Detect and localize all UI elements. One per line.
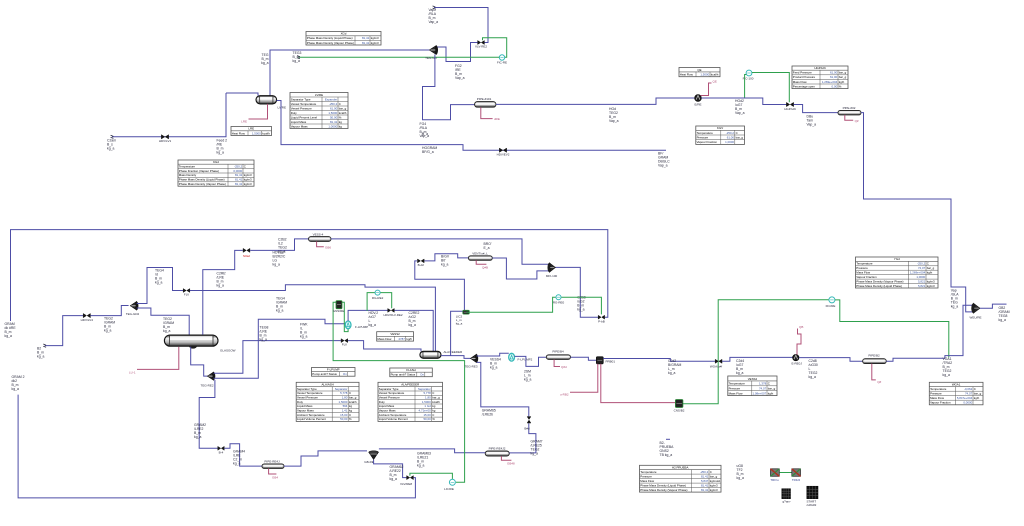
wire VLV-RE2 to compressor TEG-GD xyxy=(437,43,477,62)
svg-text:TEGB_mkg_a: TEGB_mkg_a xyxy=(261,53,269,65)
wire N#a2 branch to GLASGOW top xyxy=(203,250,243,334)
wire HDV/LV4 to tee TEG-GD2 xyxy=(90,306,128,316)
pump F-LPUMP2 xyxy=(509,353,515,361)
svg-text:kg/h: kg/h xyxy=(768,391,774,395)
energy stream QB xyxy=(797,329,801,355)
node C2am xyxy=(111,135,114,138)
svg-text:kg/m3: kg/m3 xyxy=(244,182,252,186)
pump F-LPUMP xyxy=(345,321,351,329)
svg-text:C: C xyxy=(927,262,929,266)
wire PIPE-RE4J2 to vertical valve xyxy=(509,452,536,454)
table VESS2 b xyxy=(728,376,777,396)
svg-text:kg: kg xyxy=(339,120,342,124)
svg-text:kg/h: kg/h xyxy=(407,337,413,341)
wire E-RE0J to pipe PIPE/B2 xyxy=(799,358,863,362)
block GNS/RE xyxy=(333,302,465,482)
svg-text:Q#: Q# xyxy=(855,119,859,123)
green junction comp xyxy=(463,310,470,314)
svg-text:WGA1: WGA1 xyxy=(952,383,961,387)
svg-text:81,41: 81,41 xyxy=(330,120,338,124)
pipe PIPE-RE4J2 xyxy=(485,451,509,456)
svg-text:PIPE-#02: PIPE-#02 xyxy=(843,106,856,110)
svg-text:81,41: 81,41 xyxy=(701,474,709,478)
table LRE heat flow xyxy=(231,127,272,136)
svg-text:Duty: Duty xyxy=(291,111,297,115)
table ALA/ASH xyxy=(296,382,359,421)
svg-text:F-LPUMP: F-LPUMP xyxy=(327,368,340,372)
svg-text:FIC/RE: FIC/RE xyxy=(826,304,836,308)
energy stream dRE xyxy=(481,107,493,118)
wire feed B2 to valve HDV/LV4 xyxy=(45,316,83,346)
wire VESS-4 to mixer MIX-100 top inlet xyxy=(331,239,550,264)
svg-text:Pressure: Pressure xyxy=(640,474,652,478)
svg-text:Temperature: Temperature xyxy=(856,262,873,266)
svg-text:XGd: XGd xyxy=(341,32,347,36)
svg-text:1,08e+007: 1,08e+007 xyxy=(752,391,766,395)
svg-text:H2 PRUEBA: H2 PRUEBA xyxy=(672,466,688,470)
svg-text:kg/m3: kg/m3 xyxy=(244,178,252,182)
svg-text:50,00: 50,00 xyxy=(423,417,431,421)
svg-text:Vapour Fraction: Vapour Fraction xyxy=(930,401,951,405)
pipe PIPE-#02 xyxy=(838,110,861,115)
valve FLV xyxy=(183,289,190,293)
wire vertical valve branch to funnel junction xyxy=(529,423,536,453)
svg-text:FLASH: FLASH xyxy=(406,368,415,372)
svg-text:1,41: 1,41 xyxy=(342,409,348,413)
energy stream Q#B xyxy=(476,260,486,264)
svg-text:HDV/LV4: HDV/LV4 xyxy=(81,318,94,322)
svg-text:Vapour Mass: Vapour Mass xyxy=(291,124,308,128)
svg-text:Phase Mass Density (Vapour Pha: Phase Mass Density (Vapour Phase) xyxy=(307,41,354,45)
mixer MIX-100 xyxy=(548,263,556,272)
svg-text:QE: QE xyxy=(697,68,701,72)
svg-text:Mass Flow: Mass Flow xyxy=(930,396,945,400)
tee TEG-GD2 xyxy=(130,302,138,311)
svg-text:Phase Mass Density (Vapour Pha: Phase Mass Density (Vapour Phase) xyxy=(179,182,226,186)
svg-text:GB-RE: GB-RE xyxy=(364,460,374,464)
svg-text:YGd: YGd xyxy=(894,257,900,261)
svg-text:kcal/h: kcal/h xyxy=(262,131,270,135)
svg-text:kg/m3: kg/m3 xyxy=(927,284,935,288)
wire valve B-d2 branch down to TEG-RE3 line xyxy=(415,261,465,356)
svg-text:Liquid Mass: Liquid Mass xyxy=(291,120,307,124)
svg-text:Pressure: Pressure xyxy=(697,136,709,140)
svg-text:TEG-GD2: TEG-GD2 xyxy=(126,312,140,316)
controller LIC/RE xyxy=(449,479,455,485)
wire funnel bottom to valve VLV/RE8 xyxy=(374,460,407,478)
wire PIPE/B4 to block PRB01 xyxy=(571,357,597,360)
svg-text:%: % xyxy=(432,417,435,421)
svg-text:kg/h: kg/h xyxy=(927,271,933,275)
svg-text:1,0000: 1,0000 xyxy=(916,275,925,279)
wire TEG-GD2 bottom out to vessel GLASGOW xyxy=(137,308,190,335)
svg-text:Phase Mass Density (Liquid Pha: Phase Mass Density (Liquid Phase) xyxy=(307,36,353,40)
svg-text:kg: kg xyxy=(432,409,435,413)
valve B-d2 xyxy=(418,259,425,263)
node Vap2/RLA xyxy=(433,6,436,9)
table XGd phase densities xyxy=(306,32,381,46)
wire TEG-RE2 to valve FLV2 to ALA/FEEDER xyxy=(214,341,341,374)
wire green TEG3 line xyxy=(299,56,500,58)
wire PRB01 to valve WGA/u#f xyxy=(603,359,715,362)
svg-text:GB6: GB6 xyxy=(325,246,331,250)
svg-text:GNS/RE: GNS/RE xyxy=(333,309,345,313)
energy stream LU-1 xyxy=(137,347,179,370)
table YGd xyxy=(856,257,939,288)
energy stream Q# b xyxy=(872,364,876,380)
svg-text:Heat Flow: Heat Flow xyxy=(680,73,694,77)
wire HGP to PIPE-#02 xyxy=(794,105,838,113)
svg-text:Pressure: Pressure xyxy=(930,392,942,396)
svg-text:TEG-RE2: TEG-RE2 xyxy=(200,383,213,387)
svg-text:u-RB2: u-RB2 xyxy=(560,393,569,397)
svg-text:Phase Fraction (Vapour Phase): Phase Fraction (Vapour Phase) xyxy=(179,169,219,173)
svg-text:C: C xyxy=(339,102,341,106)
svg-text:kg/m3: kg/m3 xyxy=(927,279,935,283)
wire TEG-RE3 to pump F-LPUMP2 xyxy=(477,353,509,356)
wire pump to valve HGP xyxy=(701,98,786,105)
svg-text:Mass Flow: Mass Flow xyxy=(793,80,808,84)
svg-text:1,378: 1,378 xyxy=(759,382,767,386)
svg-text:1,5000: 1,5000 xyxy=(252,131,261,135)
svg-text:TRF/d: TRF/d xyxy=(792,478,801,482)
svg-text:kg: kg xyxy=(339,124,342,128)
svg-text:%: % xyxy=(339,115,342,119)
svg-text:Phase Mass Density (Liquid Pha: Phase Mass Density (Liquid Phase) xyxy=(179,178,225,182)
svg-text:kg: kg xyxy=(349,409,352,413)
svg-text:WEU/RE: WEU/RE xyxy=(970,315,982,319)
svg-text:-0,062: -0,062 xyxy=(964,387,973,391)
pump E/RE xyxy=(695,95,702,102)
svg-text:B-4: B-4 xyxy=(219,450,224,454)
wire FIC-100 tap xyxy=(745,75,747,98)
svg-text:Pump amb? Status: Pump amb? Status xyxy=(312,372,337,376)
block CNS/B2 xyxy=(675,400,683,408)
svg-text:QB: QB xyxy=(799,325,803,329)
svg-text:PIPE-#101: PIPE-#101 xyxy=(477,97,492,101)
wire LIC/RE to valve VLV/RE8 signal xyxy=(410,473,453,479)
svg-text:Phase Mass Density (Vapour Pha: Phase Mass Density (Vapour Phase) xyxy=(640,488,687,492)
svg-text:bar_g: bar_g xyxy=(839,75,847,79)
svg-text:61,00: 61,00 xyxy=(830,71,838,75)
svg-text:bar_g: bar_g xyxy=(339,106,347,110)
compressor TEG-GD xyxy=(429,46,438,55)
svg-text:uG8TF2B_mkg_a: uG8TF2B_mkg_a xyxy=(737,464,744,480)
wire FIC/RE to junction on product line xyxy=(835,300,949,358)
table KGV xyxy=(696,126,745,144)
svg-text:1,5000: 1,5000 xyxy=(422,400,431,404)
node TEG3 xyxy=(297,56,300,59)
wire PIPE-RE4J to relief funnel xyxy=(284,451,367,466)
svg-text:1,0000: 1,0000 xyxy=(328,124,337,128)
energy stream GB4 xyxy=(269,468,277,474)
wire B-4 to pipe PIPE-RE4J xyxy=(224,444,262,466)
controller RG-RE0 xyxy=(466,297,556,312)
svg-text:Pump amb? Status: Pump amb? Status xyxy=(391,373,416,377)
svg-text:Temperature: Temperature xyxy=(729,382,746,386)
svg-text:-250,2: -250,2 xyxy=(329,102,338,106)
svg-text:HGP/u#t: HGP/u#t xyxy=(784,107,796,111)
svg-text:ALA/ASH: ALA/ASH xyxy=(321,383,333,387)
svg-text:61,00: 61,00 xyxy=(727,136,735,140)
svg-text:P-bB: P-bB xyxy=(598,319,605,323)
table KGd xyxy=(178,160,254,186)
svg-text:C: C xyxy=(768,382,770,386)
svg-text:1,5000: 1,5000 xyxy=(328,111,337,115)
svg-text:81,41: 81,41 xyxy=(362,36,370,40)
svg-text:1,5000: 1,5000 xyxy=(339,400,348,404)
wire TEG-RE2 outlet down to valve B-4 xyxy=(199,380,217,448)
svg-text:Temperature: Temperature xyxy=(179,164,196,168)
wire funnel top to pipe PIPE-RE4J2 xyxy=(379,449,485,453)
valve VLV/RE8 xyxy=(407,476,414,480)
svg-text:Phase Mass Density (Liquid Pha: Phase Mass Density (Liquid Phase) xyxy=(856,284,902,288)
valve B#d vertical xyxy=(527,417,531,423)
vessel ALA/FEEDER xyxy=(420,351,441,358)
svg-text:Vessel Temperature: Vessel Temperature xyxy=(379,391,405,395)
wire feed into LV/RE xyxy=(226,93,258,96)
svg-text:Q#: Q# xyxy=(877,380,881,384)
svg-text:kg/h: kg/h xyxy=(839,80,845,84)
svg-text:kcal/h: kcal/h xyxy=(711,73,719,77)
svg-text:Vapour Mass: Vapour Mass xyxy=(297,409,314,413)
pipe PIPE-#101 xyxy=(475,102,497,108)
svg-text:CNS/B2: CNS/B2 xyxy=(674,409,685,413)
svg-text:50,00: 50,00 xyxy=(340,417,348,421)
valve HDV/LV1 xyxy=(161,135,168,139)
table LV/RE separator xyxy=(290,93,348,129)
svg-text:kg/m3: kg/m3 xyxy=(710,483,718,487)
wire N#a2 to pipe VESS-4 xyxy=(250,239,308,251)
svg-text:Expander: Expander xyxy=(325,97,337,101)
svg-text:5,778: 5,778 xyxy=(423,391,431,395)
svg-text:kcal/h: kcal/h xyxy=(339,111,347,115)
wire TRF link xyxy=(779,472,792,474)
svg-text:QE: QE xyxy=(713,80,717,84)
svg-text:Temperature: Temperature xyxy=(697,131,714,135)
svg-text:E/RE: E/RE xyxy=(694,102,701,106)
svg-text:Liquid Volume Percent: Liquid Volume Percent xyxy=(379,417,408,421)
svg-text:C: C xyxy=(244,164,246,168)
controller FIC-100 xyxy=(746,70,752,76)
svg-text:RG-RE0: RG-RE0 xyxy=(553,300,565,304)
svg-text:START/u#G#2: START/u#G#2 xyxy=(807,500,817,508)
wire TEG-GD2 top out to valve FLV xyxy=(137,268,183,304)
energy streams from PRB01 xyxy=(570,364,598,392)
svg-text:Pressure: Pressure xyxy=(729,387,741,391)
svg-text:2SML_mkg_a: 2SML_mkg_a xyxy=(524,369,531,381)
svg-text:Vessel Temperature: Vessel Temperature xyxy=(291,102,317,106)
table ALA/FEEDER xyxy=(378,382,443,421)
svg-text:Heat Flow: Heat Flow xyxy=(232,131,246,135)
svg-text:Liquid Volume Percent: Liquid Volume Percent xyxy=(297,417,326,421)
svg-text:5,847: 5,847 xyxy=(701,479,709,483)
svg-text:-250,2: -250,2 xyxy=(700,470,709,474)
wire PIPE/B2 up the right side recycle xyxy=(886,305,973,361)
svg-text:FLV: FLV xyxy=(184,293,189,297)
svg-text:B_a: B_a xyxy=(422,132,428,136)
svg-text:F-LPUMP: F-LPUMP xyxy=(355,325,368,329)
svg-text:74,07: 74,07 xyxy=(759,387,767,391)
svg-text:Temperature: Temperature xyxy=(640,470,657,474)
wire PIPE-#101 to recycle mixer WEU/RE xyxy=(496,98,695,104)
transfer block TRF/u xyxy=(771,469,780,477)
svg-text:Phase Mass Density (Liquid Pha: Phase Mass Density (Liquid Phase) xyxy=(640,483,686,487)
wire PIPE-#02 down right side to mixer WEU/RE xyxy=(861,113,973,312)
svg-text:FLV: FLV xyxy=(342,343,347,347)
svg-text:PIPE/B2: PIPE/B2 xyxy=(868,353,880,357)
svg-text:74,07: 74,07 xyxy=(918,266,926,270)
svg-text:Duty: Duty xyxy=(297,400,303,404)
wire CNS/B2 green up to controller FIC/RE xyxy=(683,300,829,404)
wire LV/RE vapour to HDV/EV2 line xyxy=(277,101,666,151)
pipe VENT/u# xyxy=(468,256,492,260)
svg-text:GB4: GB4 xyxy=(272,476,278,480)
svg-text:C: C xyxy=(974,387,976,391)
pipe PIPE/B4 xyxy=(546,355,570,360)
svg-text:50,00: 50,00 xyxy=(330,115,338,119)
svg-text:1,5000: 1,5000 xyxy=(700,73,709,77)
block START grid xyxy=(807,486,818,499)
svg-text:4,71e+00: 4,71e+00 xyxy=(419,409,432,413)
svg-text:-250,2: -250,2 xyxy=(234,164,243,168)
svg-text:74,07: 74,07 xyxy=(965,392,973,396)
valve HDV/FLV-RE2 xyxy=(388,309,395,313)
svg-text:FIC-RE: FIC-RE xyxy=(497,61,507,65)
svg-text:C: C xyxy=(710,470,712,474)
svg-text:kcal/h: kcal/h xyxy=(349,400,357,404)
svg-text:kg/h: kg/h xyxy=(974,396,980,400)
svg-text:kg/m3: kg/m3 xyxy=(244,173,252,177)
svg-text:C: C xyxy=(349,391,351,395)
svg-text:-250,2: -250,2 xyxy=(726,131,735,135)
energy stream Q# xyxy=(845,115,853,120)
svg-text:Mass Flow: Mass Flow xyxy=(729,391,744,395)
svg-text:LU-1: LU-1 xyxy=(129,371,136,375)
svg-text:E-RE0J: E-RE0J xyxy=(792,362,803,366)
valve B-4 xyxy=(218,446,224,450)
svg-text:5,821: 5,821 xyxy=(918,279,926,283)
svg-text:-250,2: -250,2 xyxy=(917,262,926,266)
svg-text:dRE: dRE xyxy=(494,117,500,121)
svg-text:bar_g: bar_g xyxy=(974,392,982,396)
svg-text:VLV/RE8: VLV/RE8 xyxy=(400,482,412,486)
svg-text:Separator Type: Separator Type xyxy=(291,97,311,101)
svg-text:TRF/u: TRF/u xyxy=(770,478,779,482)
svg-text:HDV/LV1: HDV/LV1 xyxy=(159,139,172,143)
svg-text:VLV-RE2: VLV-RE2 xyxy=(475,45,487,49)
wire HDV/FLV-RE2 to ALA/FEEDER top xyxy=(394,310,433,351)
wire F-LPUMP up to valve HDV/FLV-RE2 xyxy=(348,310,388,321)
valve HDV/LV4 xyxy=(83,314,90,318)
valve WGA/u#f xyxy=(715,359,722,363)
svg-text:VESS-4: VESS-4 xyxy=(313,232,324,236)
svg-text:VESS2: VESS2 xyxy=(748,377,758,381)
svg-text:bar_g: bar_g xyxy=(736,136,744,140)
table VESS2 mass flow xyxy=(377,332,414,341)
svg-text:PIPE-RE4J: PIPE-RE4J xyxy=(264,460,280,464)
wire ALA/FEEDER to tee TEG-RE3 xyxy=(441,356,471,359)
svg-text:81,41: 81,41 xyxy=(235,178,243,182)
svg-text:g?am-: g?am- xyxy=(783,500,792,504)
svg-text:Vapour Fraction: Vapour Fraction xyxy=(697,140,718,144)
energy stream Q#d xyxy=(554,359,560,366)
svg-text:Liquid Percent Level: Liquid Percent Level xyxy=(291,115,318,119)
svg-text:5,821: 5,821 xyxy=(918,284,926,288)
svg-text:HDV/EV2: HDV/EV2 xyxy=(497,153,510,157)
controller RG-RE2 xyxy=(367,293,375,311)
block gram grid xyxy=(782,489,791,499)
table H2 PRUEBA xyxy=(640,465,722,492)
svg-text:B#d: B#d xyxy=(524,426,530,430)
svg-text:VESS2: VESS2 xyxy=(390,332,400,336)
svg-text:%: % xyxy=(839,84,842,88)
svg-text:MIX-100: MIX-100 xyxy=(546,274,558,278)
wire TEG-RE2 to pump F-LPUMP xyxy=(214,319,346,378)
svg-text:Pressure: Pressure xyxy=(856,266,868,270)
svg-text:81,41: 81,41 xyxy=(235,182,243,186)
wire VENT to mixer MIX-100 bottom inlet xyxy=(492,258,549,279)
tee TEG-RE2 xyxy=(207,372,215,380)
table WGA1 xyxy=(929,382,983,405)
svg-text:LRE: LRE xyxy=(241,120,247,124)
mixer WEU/RE xyxy=(971,303,980,313)
wire WGA/u#f to pump E-RE0J xyxy=(722,357,793,361)
svg-text:LV/RE: LV/RE xyxy=(278,106,286,110)
relief funnel GB-RE xyxy=(369,452,379,459)
svg-text:Duty: Duty xyxy=(379,400,385,404)
svg-text:LIC/RE: LIC/RE xyxy=(444,487,454,491)
svg-text:WGA/u#f: WGA/u#f xyxy=(710,365,722,369)
svg-text:TEG-GD: TEG-GD xyxy=(425,56,437,60)
svg-text:kg/m3: kg/m3 xyxy=(371,36,379,40)
svg-text:Vapour Mass: Vapour Mass xyxy=(379,409,396,413)
valve HDV/EV2 xyxy=(499,148,506,152)
svg-text:bar_g: bar_g xyxy=(768,387,776,391)
pipe VESS-4 xyxy=(309,237,332,242)
svg-text:2787: 2787 xyxy=(398,337,405,341)
svg-text:bar_g: bar_g xyxy=(927,266,935,270)
svg-text:kg/molA: kg/molA xyxy=(710,479,721,483)
svg-text:81,41: 81,41 xyxy=(235,173,243,177)
svg-text:LRE: LRE xyxy=(248,127,254,131)
transfer block TRF/d xyxy=(792,469,801,477)
energy stream QE xyxy=(701,83,712,96)
svg-text:5,778: 5,778 xyxy=(340,391,348,395)
valve P-bB xyxy=(598,315,604,319)
energy stream GB48 xyxy=(501,456,511,460)
wire TEG-GD inlet from vessel LV/RE xyxy=(270,50,429,96)
svg-text:On: On xyxy=(343,372,347,376)
valve HGP/u#t xyxy=(786,102,793,106)
wire FLV to vessel ALA/FEEDER top xyxy=(190,285,436,352)
wire TEG-RE3 bottom branch down to vertical valve xyxy=(477,362,529,416)
svg-text:61,00: 61,00 xyxy=(830,75,838,79)
svg-text:Q#d: Q#d xyxy=(561,365,567,369)
svg-text:0,0000: 0,0000 xyxy=(963,401,972,405)
svg-text:C: C xyxy=(432,391,434,395)
wire VLV/RE8 to bottom return loop xyxy=(18,395,415,498)
svg-text:ALA/FEEDER: ALA/FEEDER xyxy=(401,383,419,387)
valve VLV-RE2 xyxy=(478,41,485,45)
svg-text:Phase Mass Density (Vapour Pha: Phase Mass Density (Vapour Phase) xyxy=(856,279,903,283)
wire Vap2/RLA to valve VLV-RE2 xyxy=(434,8,488,43)
svg-text:0,0000: 0,0000 xyxy=(233,169,242,173)
svg-text:HDV/FLV-RE2: HDV/FLV-RE2 xyxy=(383,313,402,317)
svg-text:Vessel Temperature: Vessel Temperature xyxy=(297,391,323,395)
svg-text:KGV: KGV xyxy=(717,126,723,130)
svg-text:C: C xyxy=(736,131,738,135)
